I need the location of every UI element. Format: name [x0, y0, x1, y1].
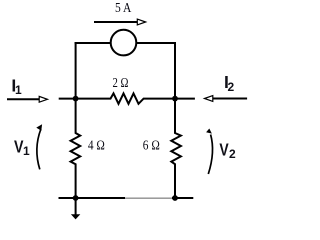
svg-text:6 Ω: 6 Ω	[143, 138, 160, 153]
svg-text:V: V	[219, 139, 229, 159]
svg-text:2 Ω: 2 Ω	[113, 76, 129, 91]
svg-text:1: 1	[15, 83, 22, 97]
svg-text:1: 1	[23, 144, 30, 158]
svg-text:2: 2	[229, 147, 236, 161]
svg-text:4 Ω: 4 Ω	[88, 138, 105, 153]
svg-text:2: 2	[227, 80, 234, 94]
svg-text:5 A: 5 A	[115, 1, 132, 16]
